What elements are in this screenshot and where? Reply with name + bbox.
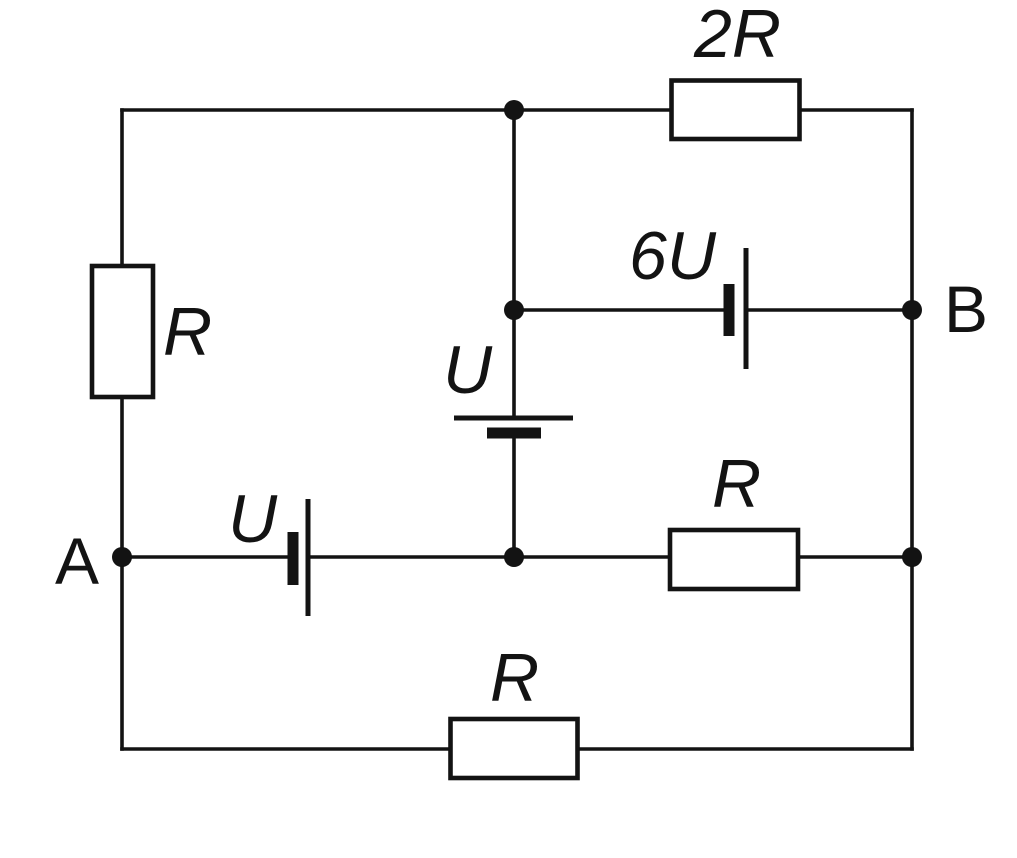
wire top horizontal [122, 108, 912, 112]
svg-text:2R: 2R [693, 0, 781, 72]
svg-text:U: U [443, 332, 493, 408]
svg-text:6U: 6U [629, 218, 717, 294]
resistor R bottom [451, 719, 578, 778]
node junction right A row [902, 547, 922, 567]
wire center vertical lower [512, 438, 516, 557]
resistor R middle right [670, 530, 798, 589]
node junction center 6U row [504, 300, 524, 320]
wire right vertical [910, 110, 914, 749]
svg-text:A: A [55, 524, 99, 598]
node junction center A row [504, 547, 524, 567]
wire A row [122, 555, 288, 559]
svg-text:B: B [944, 272, 988, 346]
node B junction [902, 300, 922, 320]
resistor 2R [672, 81, 800, 140]
battery U horizontal long plate [306, 499, 311, 616]
battery U horizontal short thick plate [288, 532, 299, 585]
wire left vertical [120, 110, 124, 749]
node A junction [112, 547, 132, 567]
svg-text:R: R [712, 446, 761, 522]
wire A row center [308, 555, 912, 559]
battery 6U short thick plate [724, 284, 735, 336]
resistor R left [92, 266, 153, 397]
svg-text:U: U [228, 481, 278, 557]
svg-text:R: R [490, 640, 539, 716]
svg-text:R: R [163, 294, 212, 370]
wire bottom horizontal [122, 747, 912, 751]
wire 6U to B [746, 308, 912, 312]
node junction top center [504, 100, 524, 120]
battery 6U long plate [744, 248, 749, 369]
wire center vertical upper [512, 110, 516, 418]
battery U vertical short thick plate [487, 428, 541, 439]
battery U vertical long plate [454, 416, 573, 421]
wire 6U row [514, 308, 724, 312]
